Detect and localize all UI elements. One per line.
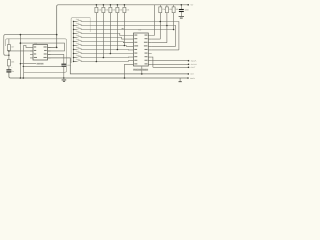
resistor Ra (left chain) <box>7 45 10 51</box>
switch S9 <box>74 52 82 53</box>
wire U2 output C <box>152 57 189 67</box>
resistor R6 pullup right <box>152 5 161 39</box>
capacitor C1 electrolytic <box>6 69 11 71</box>
switch S4 <box>74 32 82 33</box>
svg-text:SW11: SW11 <box>76 58 81 61</box>
switch S10 <box>74 56 82 57</box>
svg-text:SW5: SW5 <box>76 34 80 37</box>
node rail B mid <box>141 73 143 75</box>
IC U1 body (8-pin) <box>33 45 48 61</box>
terminal stub rail A end <box>179 78 181 81</box>
svg-text:U2: U2 <box>138 28 142 31</box>
svg-text:SW1: SW1 <box>76 18 80 21</box>
node row2-R7 <box>166 25 168 27</box>
IC U2 body (PIC16F84 18-pin) <box>134 33 149 66</box>
node loop corner <box>20 42 22 44</box>
wire U2 output B <box>152 63 189 65</box>
U2 pin stubs right <box>148 36 151 65</box>
switch bus nodes <box>73 21 74 22</box>
resistor R2 pullup <box>102 5 104 58</box>
svg-text:22k: 22k <box>11 61 14 64</box>
node out B <box>188 64 190 66</box>
node bus R2 <box>103 4 105 6</box>
wire U2 output A <box>152 60 189 62</box>
svg-text:10k: 10k <box>112 8 115 11</box>
node out A <box>188 60 190 62</box>
node bus R1 <box>96 4 98 6</box>
node bus C3 <box>181 4 183 6</box>
switch S1 <box>74 20 82 21</box>
U1 internal pin names <box>34 46 47 58</box>
wire row4 to U2 pin1L <box>81 34 131 36</box>
svg-text:SW9: SW9 <box>76 50 80 53</box>
U1 pin stubs left <box>30 47 33 58</box>
U2 internal pin names <box>134 35 147 65</box>
svg-text:SW6: SW6 <box>76 38 80 41</box>
switch S3 <box>74 28 82 29</box>
label U2 value <box>133 69 148 71</box>
node out C <box>188 67 190 69</box>
wire row2 to U2 pin4R <box>81 26 176 47</box>
svg-text:0V: 0V <box>191 73 196 76</box>
text labels <box>11 3 198 79</box>
wire C3 to ground <box>180 12 182 16</box>
svg-text:SW7: SW7 <box>76 42 80 45</box>
svg-text:SW8: SW8 <box>76 46 80 49</box>
wire C2 to rail A <box>63 67 65 78</box>
wire VDD drop to U2 pin1R <box>152 5 155 36</box>
U1 pin stubs right <box>48 47 51 58</box>
label U1 value <box>37 63 44 65</box>
wire VCC top bus <box>48 5 189 48</box>
wire row7 to U2 pin4L <box>81 45 131 48</box>
wire stub under U1 b <box>23 65 61 67</box>
resistor R8 pullup right <box>173 5 175 30</box>
svg-text:4k7: 4k7 <box>11 46 14 49</box>
node rail A VSS <box>124 77 126 79</box>
switches S1-S11 <box>74 20 82 61</box>
svg-text:+5V: +5V <box>190 3 194 6</box>
switch S6 <box>74 40 82 41</box>
node bus terminal <box>187 4 189 6</box>
svg-text:10u: 10u <box>11 70 14 73</box>
node under U1 a <box>20 63 21 64</box>
junction dots <box>8 4 189 79</box>
node rail A C2 <box>63 77 65 79</box>
switch S11 <box>74 60 82 61</box>
node chain rail join <box>8 55 9 56</box>
switch S5 <box>74 36 82 37</box>
wire row5 to U2 pin2L <box>81 38 131 40</box>
wire chain top stub <box>8 39 10 45</box>
wire U2 bottom to rail B <box>141 67 143 74</box>
wire row8 to U2 pin5L <box>81 49 131 51</box>
resistor R4 pullup <box>116 5 118 50</box>
wire divider tap to U1 pin2L <box>9 50 33 52</box>
node rail A a <box>20 77 22 79</box>
node vcc join <box>56 34 58 36</box>
svg-text:OUT: OUT <box>191 66 196 69</box>
svg-text:10k: 10k <box>98 8 101 11</box>
node U1 vcc pin <box>56 47 58 49</box>
svg-text:100n: 100n <box>185 9 189 12</box>
svg-text:SW2: SW2 <box>76 22 80 25</box>
switch S2 <box>74 24 82 25</box>
svg-text:10k: 10k <box>105 8 108 11</box>
U2 pin stubs left <box>131 36 134 65</box>
resistor R7 pullup right <box>152 5 167 43</box>
svg-text:SCLK: SCLK <box>191 63 199 66</box>
wire loop over U1 to pin2R <box>20 43 64 51</box>
svg-text:24C16: 24C16 <box>37 62 45 65</box>
resistor R1 pullup <box>95 5 97 62</box>
wire vertical drop left b <box>23 46 30 78</box>
svg-text:10k: 10k <box>169 8 172 11</box>
svg-text:10k: 10k <box>176 8 179 11</box>
svg-text:10k: 10k <box>119 8 122 11</box>
resistor R3 pullup <box>109 5 111 54</box>
wire row9 to U2 pin6L <box>81 53 131 55</box>
capacitor C2 <box>61 63 66 65</box>
label pin1 number <box>122 28 124 29</box>
node bus R3 <box>110 4 112 6</box>
node row1-R6 <box>160 21 162 23</box>
resistor Rb (left chain) <box>7 60 10 66</box>
group box switch bank <box>71 18 90 63</box>
switch common bus <box>73 22 75 62</box>
node row7-R5 <box>124 45 126 47</box>
wire ground rail A <box>9 73 188 78</box>
wire row1 to U2 pin5R <box>81 22 179 50</box>
wire vertical drop left a <box>19 35 21 78</box>
node left rail tap <box>20 34 22 36</box>
svg-text:SW10: SW10 <box>76 54 81 57</box>
capacitor C3 decoupling <box>180 5 182 9</box>
group box sub-circuit (left) <box>6 39 67 73</box>
node rail A b <box>23 77 25 79</box>
svg-text:100n: 100n <box>67 64 71 67</box>
node row3-R8 <box>173 29 175 31</box>
ground symbol rail A end <box>179 81 182 83</box>
node divider tap <box>8 50 10 52</box>
wire U1 pin3R to C2 <box>48 54 64 63</box>
node bus R4 <box>117 4 119 6</box>
svg-text:10k: 10k <box>126 8 129 11</box>
wire ground rail B <box>48 58 189 74</box>
svg-text:10k: 10k <box>162 8 165 11</box>
node bus R5 <box>124 4 126 6</box>
node rail B end <box>188 73 190 75</box>
svg-text:SW3: SW3 <box>76 26 80 29</box>
wire left rail loop <box>4 35 57 56</box>
wire C1 to rail A <box>8 71 10 74</box>
node row8-R4 <box>117 49 119 51</box>
svg-text:+: + <box>11 66 12 69</box>
ground symbol C3 <box>179 17 184 19</box>
svg-text:GND: GND <box>190 77 196 80</box>
wire Ra to Rb <box>8 51 10 60</box>
wire row10 to U2 pin7L <box>81 56 131 58</box>
resistor R5 pullup <box>123 5 125 46</box>
wire row11 to U2 pin8L <box>81 60 131 63</box>
wire Rb to C1 <box>8 66 10 70</box>
switch S7 <box>74 44 82 45</box>
wire U2 VSS pin9L to rail A <box>125 64 132 78</box>
node rail A end <box>187 77 189 79</box>
node row9-R3 <box>110 53 112 55</box>
node under U1 b <box>23 66 24 67</box>
switch S8 <box>74 48 82 49</box>
node row10-R2 <box>103 57 105 59</box>
node row11-R1 <box>96 61 98 63</box>
wire row6 to U2 pin3L <box>81 42 131 43</box>
wire stub under U1 a <box>20 63 36 65</box>
svg-text:SDA: SDA <box>191 59 198 62</box>
wire row3 to R8 <box>81 29 174 31</box>
ground symbol C2 <box>62 80 67 81</box>
svg-text:SW4: SW4 <box>76 30 80 33</box>
svg-text:PIC16F84A: PIC16F84A <box>133 69 148 72</box>
